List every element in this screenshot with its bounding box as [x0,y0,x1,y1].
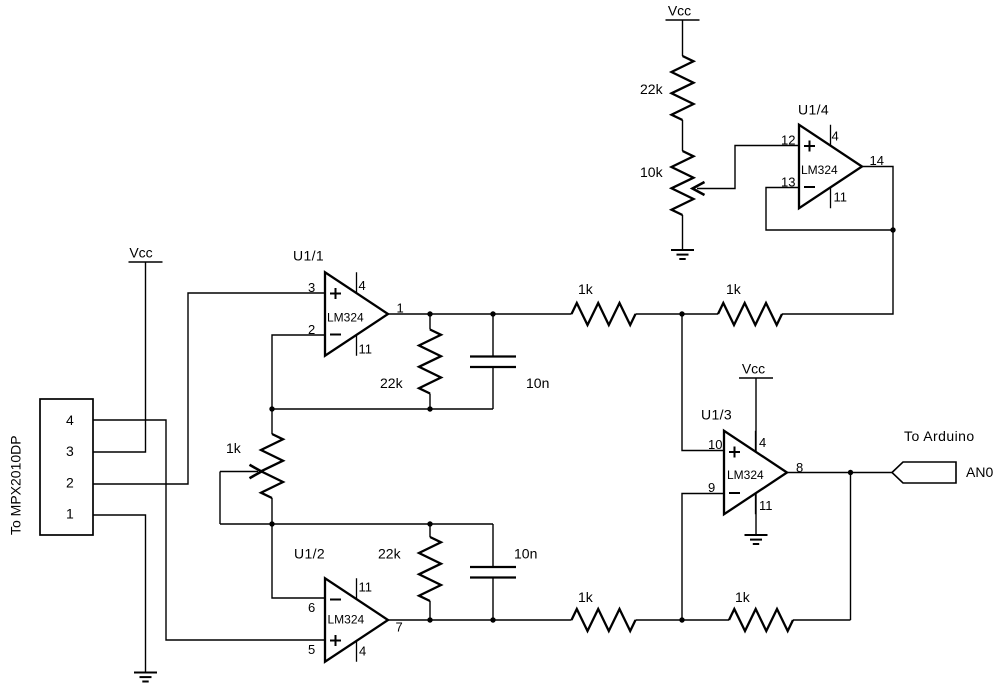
svg-text:13: 13 [781,175,795,190]
svg-text:LM324: LM324 [727,468,764,482]
svg-text:1k: 1k [226,440,242,456]
wire J1 pin 4 to U1/2 pin 5 [93,420,325,640]
capacitor 10n (bottom) leads [492,524,494,567]
wire U1/4 feedback to pin 13 [766,188,893,231]
svg-text:12: 12 [781,133,795,148]
svg-text:11: 11 [359,580,373,595]
svg-text:11: 11 [834,190,848,205]
wire bottom rail left [636,619,730,621]
potentiometer 1k wiper arrow [220,471,258,473]
capacitor 10n (top) [470,355,516,357]
svg-text:4: 4 [66,412,74,428]
op-amp U1/3 [724,431,787,515]
svg-text:3: 3 [308,280,315,295]
junction at 850.5,472.5 [848,470,853,475]
wire 10k pot to ground [682,215,684,250]
wire U1/1 pin 2 to feedback node [272,335,325,409]
svg-text:4: 4 [759,435,766,450]
junction at 272,409 [269,406,274,411]
op-amp U1/4 [799,125,862,209]
wire U1/3 output to AN0 connector [787,472,892,474]
svg-text:1k: 1k [726,281,742,297]
svg-text:6: 6 [308,600,315,615]
svg-text:To MPX2010DP: To MPX2010DP [8,435,24,535]
svg-text:1: 1 [66,506,74,522]
svg-text:10n: 10n [526,375,549,391]
wire J1 pin 2 to U1/1 pin 3 [93,293,325,484]
wire U1/3 pin 9 to node 682,620 [682,494,724,621]
svg-text:11: 11 [359,342,373,357]
svg-text:LM324: LM324 [801,163,838,177]
svg-text:22k: 22k [378,546,402,562]
svg-text:1k: 1k [735,589,751,605]
wire bottom rail right [793,619,851,621]
resistor 22k (U1/2 feedback) leads [429,524,431,537]
resistor 22k (U1/1 feedback) [419,330,441,394]
wire Vcc to 22k [682,20,684,56]
resistor 1k (bottom left) [572,609,636,631]
potentiometer 1k (gain) top lead [271,409,273,434]
svg-text:4: 4 [359,278,366,293]
power Vcc (U1/3) [739,377,773,379]
output flag AN0 (To Arduino) [892,462,956,483]
wire output node down to bottom rail [850,473,852,621]
wire J1 pin 1 to ground [93,515,146,672]
op-amp U1/1 [325,272,388,356]
svg-text:U1/3: U1/3 [701,407,732,423]
wire Vcc to J1 pin 3 [93,262,146,452]
svg-text:11: 11 [759,498,773,513]
svg-text:U1/2: U1/2 [294,546,325,562]
junction at 430,620 [427,617,432,622]
svg-text:10n: 10n [514,546,537,562]
svg-text:10k: 10k [640,164,664,180]
svg-text:4: 4 [359,644,366,659]
resistor 1k (top right) [718,303,782,325]
svg-text:U1/4: U1/4 [798,102,829,118]
resistor 1k (bottom right) [729,609,793,631]
resistor 1k (top left) [572,303,636,325]
svg-text:U1/1: U1/1 [293,248,324,264]
wire node to U1/2 pin 6 [272,524,325,598]
resistor 22k (bias) [672,56,694,120]
wire U1/2 output rail [388,619,572,621]
svg-text:AN0: AN0 [966,464,993,480]
wire Vcc to U1/3 pin 4 [755,378,757,452]
ground (U1/3) [745,534,768,536]
resistor 22k (U1/1 feedback) leads [429,314,431,330]
wire wiper to bottom node [219,472,221,525]
wire rail y=524 [220,523,493,525]
svg-text:1k: 1k [578,281,594,297]
junction at 682,620 [679,617,684,622]
svg-text:14: 14 [870,153,884,168]
svg-text:22k: 22k [380,375,404,391]
junction at 682,314 [679,311,684,316]
connector J1 body (To MPX2010DP) [40,399,93,535]
junction at 430,524 [427,521,432,526]
power Vcc (top bias) [666,19,700,21]
wire to node 682,314 [636,313,719,315]
svg-text:2: 2 [66,475,74,491]
wire U1/3 pin 11 to ground [755,493,757,535]
potentiometer 10k (offset) [672,151,694,215]
junction at 493,620 [490,617,495,622]
svg-text:1k: 1k [578,589,594,605]
svg-text:7: 7 [396,620,403,635]
junction at 893,230 [890,227,895,232]
svg-text:3: 3 [66,443,74,459]
power Vcc (left, to J1 pin 3) [129,261,163,263]
svg-text:4: 4 [832,129,839,144]
wire feedback rail y=409 [272,408,493,410]
svg-text:22k: 22k [640,81,664,97]
svg-text:LM324: LM324 [327,311,364,325]
capacitor 10n (bottom) [470,566,516,568]
svg-text:10: 10 [708,437,722,452]
junction at 493,314 [490,311,495,316]
junction at 430,314 [427,311,432,316]
junction at 272,524 [269,521,274,526]
svg-text:LM324: LM324 [328,613,365,627]
svg-text:Vcc: Vcc [742,361,765,377]
op-amp U1/2 [325,578,388,662]
svg-text:9: 9 [708,480,715,495]
potentiometer 1k bottom lead [271,498,273,524]
resistor 22k (U1/2 feedback) [419,537,441,601]
svg-text:To Arduino: To Arduino [904,428,975,444]
wire U1/1 output rail [388,313,572,315]
ground (below J1) [134,672,157,674]
svg-text:Vcc: Vcc [129,245,152,261]
capacitor 10n (top) leads [492,314,494,356]
svg-text:5: 5 [308,642,315,657]
wire node 682,314 down to U1/3 pin 10 [682,314,724,451]
svg-text:1: 1 [397,301,404,316]
potentiometer 10k wiper arrow to U1/4 pin 12 [697,146,799,189]
junction at 430,409 [427,406,432,411]
potentiometer 1k (gain) [261,434,283,498]
svg-text:Vcc: Vcc [668,3,691,19]
ground (bias divider) [671,249,694,251]
wire 22k to 10k pot [682,120,684,151]
wire top right rail to U1/4 output [782,167,893,315]
